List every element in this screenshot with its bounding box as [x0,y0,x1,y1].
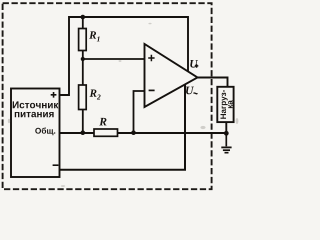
power source box [11,89,60,178]
node: load / ground junction [224,131,229,136]
op-amp + input sign [148,55,154,61]
resistor R (horizontal) [94,129,118,136]
wire: + supply from source up and across top to op-amp V+ pin [60,17,189,95]
node: top rail / R1 junction [81,15,86,20]
label - terminal [53,164,59,166]
op-amp - input sign [149,89,155,91]
wire: op-amp output to load [198,78,228,134]
scan noise smudges (decorative) [8,23,239,187]
wire: - input down to common rail [134,91,145,133]
resistor R1 [79,29,87,51]
wire: common rail from source to load node [60,132,227,134]
label U+ output level [190,60,198,68]
node: R2 bottom on common rail [81,130,86,135]
load box (Нагрузка) [217,87,233,122]
dashed enclosure border [3,3,212,189]
resistor R2 [79,85,87,110]
ground [225,133,227,146]
paper background [0,0,240,196]
wire: divider chain vertical [82,17,84,133]
label: Источник питания [13,101,59,108]
wire: divider tap to + input [83,58,145,60]
op-amp U1 triangle [145,44,198,107]
label U- output level [186,87,194,95]
label + terminal [51,92,57,98]
node: divider tap R1/R2 [81,57,85,61]
node: - input / R junction on common rail [131,130,136,135]
wire: - supply rail from source to op-amp V- pin [60,85,186,170]
label: Общ. terminal [35,128,55,136]
